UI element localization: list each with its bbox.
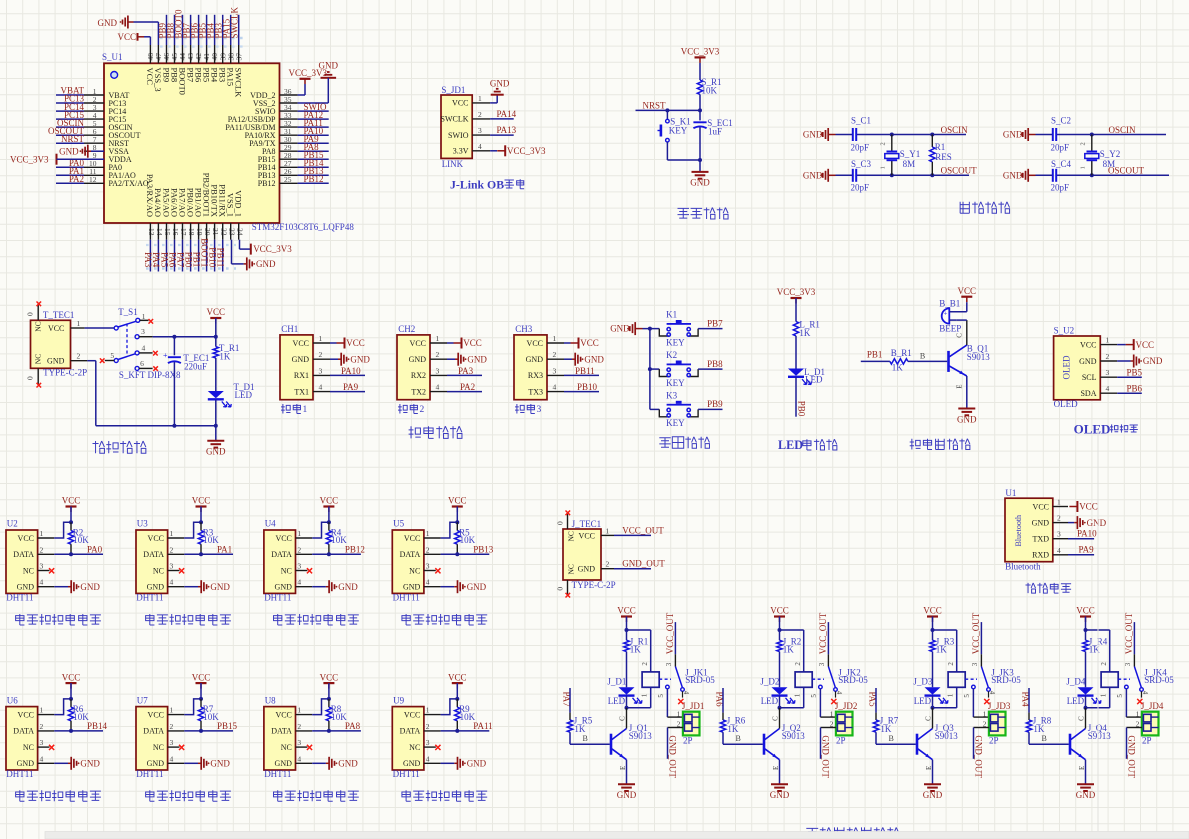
wire OLED SDA PB6 (1117, 383, 1142, 393)
svg-text:C: C (771, 716, 779, 721)
svg-text:GND: GND (1003, 130, 1023, 140)
svg-text:5: 5 (1116, 694, 1124, 698)
svg-text:VCC: VCC (923, 606, 942, 616)
svg-text:B: B (920, 351, 925, 360)
wire U5 DATA PB13 (441, 545, 494, 555)
svg-text:PB0: PB0 (796, 401, 806, 417)
pin U8 DATA stub (296, 730, 313, 732)
svg-text:SWCLK: SWCLK (441, 115, 469, 124)
connector U9 pin names (400, 706, 430, 769)
ground GND CH2 pin2 (447, 353, 487, 366)
svg-text:S_Y2: S_Y2 (1100, 149, 1121, 159)
svg-text:LED: LED (914, 696, 932, 706)
svg-text:K1: K1 (666, 310, 677, 320)
svg-text:S_Y1: S_Y1 (900, 149, 921, 159)
node MCU top net labels (157, 6, 239, 38)
svg-text:E: E (956, 385, 964, 389)
relay J_JK4 SRD-05 coil (1086, 662, 1175, 708)
svg-text:4: 4 (478, 142, 482, 151)
wire U3 vcc step (184, 520, 203, 538)
wire CH1 pin4 PA9 (330, 382, 365, 392)
svg-text:PA2/TX/AO: PA2/TX/AO (109, 179, 149, 188)
svg-text:OLED: OLED (1062, 355, 1072, 379)
svg-text:CH3: CH3 (515, 324, 533, 334)
svg-text:1: 1 (983, 710, 987, 719)
wire LED to node J_D3 (931, 696, 935, 710)
svg-text:14: 14 (155, 228, 164, 236)
svg-text:VCC_3V3: VCC_3V3 (507, 146, 546, 156)
svg-text:PB12: PB12 (258, 179, 276, 188)
pin J_TEC1 top 0 (556, 511, 571, 530)
wire collector J_Q2 (779, 708, 781, 729)
power VCC buzzer (958, 286, 977, 312)
svg-text:LINK: LINK (442, 159, 464, 169)
wire U7 vcc step (184, 697, 203, 715)
pin U2 DATA stub (38, 553, 55, 555)
svg-text:J_D2: J_D2 (760, 676, 779, 686)
svg-text:VCC: VCC (1033, 502, 1049, 511)
svg-text:1: 1 (426, 706, 430, 715)
svg-text:B: B (889, 734, 894, 743)
svg-text:DATA: DATA (271, 550, 292, 559)
node OSCIN label S_C1 (941, 125, 969, 135)
svg-text:SWCLK: SWCLK (230, 6, 240, 38)
power VCC CH2 pin1 (447, 338, 482, 349)
svg-text:1K: 1K (799, 328, 811, 338)
wire GND_OUT net (614, 559, 665, 569)
connector U1 pins (1032, 498, 1068, 560)
pin U7 VCC stub (168, 714, 185, 716)
svg-text:DHT11: DHT11 (136, 769, 163, 779)
connector J_JD4 2P (1136, 701, 1164, 746)
svg-text:1: 1 (426, 529, 430, 538)
resistor R6 10K (68, 699, 89, 733)
node PA4 label (1021, 692, 1031, 708)
ground buzzer GND (957, 409, 977, 425)
svg-text:NC: NC (34, 354, 43, 364)
connector J_JD1 2P (677, 701, 705, 746)
ground GND U7 (184, 757, 230, 770)
svg-text:GND: GND (957, 414, 977, 424)
wire VCC_OUT J_JK2 (818, 612, 828, 666)
connector CH1 pins (292, 334, 330, 396)
svg-text:GND: GND (147, 583, 165, 592)
svg-text:GND: GND (98, 18, 118, 28)
svg-text:1: 1 (40, 529, 44, 538)
svg-text:4: 4 (436, 383, 440, 392)
capacitor S_C2 20pF (1051, 115, 1072, 152)
svg-text:S9013: S9013 (1088, 731, 1112, 741)
svg-text:LED: LED (805, 374, 823, 384)
svg-text:VCC: VCC (579, 531, 595, 540)
svg-text:VCC: VCC (1080, 340, 1096, 349)
MCU left pin stubs (84, 95, 104, 183)
svg-text:DATA: DATA (400, 727, 421, 736)
power VCC relay J_R2 (770, 606, 789, 630)
svg-text:RXD: RXD (1032, 551, 1049, 560)
svg-text:4: 4 (142, 343, 146, 352)
wire emitter J_Q2 (779, 760, 781, 785)
svg-text:1: 1 (478, 94, 482, 103)
wire TEC1 pin1 to switch (85, 327, 115, 329)
svg-text:5: 5 (110, 351, 114, 360)
wire OSCOUT S_C4 (1036, 174, 1170, 176)
pin U9 NC no-connect (424, 745, 441, 750)
svg-text:20pF: 20pF (1051, 183, 1070, 193)
svg-text:SWCLK: SWCLK (234, 68, 244, 99)
svg-text:3: 3 (40, 562, 44, 571)
selection dots top (160, 38, 246, 47)
resistor R1 RES (930, 133, 952, 178)
node OSCOUT label S_C3 (941, 166, 978, 176)
svg-text:GND: GND (338, 759, 358, 769)
svg-text:1K: 1K (727, 724, 739, 734)
node MCU right net labels (304, 102, 327, 184)
svg-text:LED: LED (608, 696, 626, 706)
capacitor S_C3 20pF (851, 159, 872, 193)
svg-text:SDA: SDA (1080, 389, 1096, 398)
svg-text:DHT11: DHT11 (136, 593, 163, 603)
ground GND U2 (54, 580, 100, 593)
svg-text:U9: U9 (393, 695, 404, 705)
svg-text:4: 4 (297, 754, 301, 763)
node PB0 label (796, 401, 806, 417)
svg-text:DATA: DATA (143, 727, 164, 736)
wire LED top (795, 298, 797, 322)
svg-text:2: 2 (1079, 142, 1086, 145)
svg-text:GND: GND (210, 582, 230, 592)
svg-text:1K: 1K (630, 644, 642, 654)
svg-text:PA9: PA9 (343, 382, 359, 392)
power VCC CH3 pin1 (564, 338, 599, 349)
svg-text:VCC: VCC (404, 710, 420, 719)
svg-text:0: 0 (556, 587, 565, 591)
svg-text:C: C (1077, 716, 1085, 721)
power VCC_3V3 to pin36 VDD_2 (289, 68, 328, 95)
svg-text:NC: NC (34, 321, 43, 331)
pin J_TEC1 GND pin2 (578, 560, 614, 574)
wire MCU top nets (167, 15, 239, 45)
wire LED to PB0 (795, 377, 797, 417)
svg-text:PB11: PB11 (216, 248, 226, 268)
wire OSCOUT S_C3 (836, 174, 970, 176)
svg-text:4: 4 (170, 754, 174, 763)
capacitor S_EC1 1uF (693, 110, 732, 160)
svg-text:VCC: VCC (207, 307, 226, 317)
svg-text:VCC_OUT: VCC_OUT (818, 612, 828, 654)
switch T_S1 DIP (100, 307, 181, 380)
resistor J_R8 1K (1026, 715, 1052, 734)
wire VCC_OUT J_JK4 (1124, 612, 1134, 666)
svg-text:4: 4 (40, 754, 44, 763)
svg-text:SWIO: SWIO (448, 131, 469, 140)
power VCC CH1 pin1 (330, 338, 365, 349)
svg-text:2: 2 (947, 662, 955, 666)
svg-text:VCC_OUT: VCC_OUT (1124, 612, 1134, 654)
wire switch pin3 to rail (153, 335, 218, 339)
svg-text:3: 3 (553, 366, 557, 375)
wire CH3 pin3 PB11 (564, 366, 599, 376)
wire U8 DATA PA8 (312, 721, 361, 731)
connector S_U2 OLED body (1054, 326, 1101, 409)
wire key PB7 (698, 318, 723, 328)
svg-text:1: 1 (297, 529, 301, 538)
node MCU bottom net labels (143, 238, 225, 267)
connector U6 DHT11 body (6, 695, 38, 779)
svg-text:3: 3 (170, 738, 174, 747)
wire reset bottom (667, 158, 702, 172)
svg-text:VCC: VCC (770, 606, 789, 616)
svg-text:PB15: PB15 (217, 721, 238, 731)
wire U9 vcc step (441, 697, 460, 715)
svg-text:+: + (944, 310, 948, 318)
svg-text:2: 2 (641, 662, 649, 666)
svg-text:DATA: DATA (271, 727, 292, 736)
pin U9 GND stub (424, 762, 441, 764)
svg-text:RX2: RX2 (411, 371, 426, 380)
connector U8 pin names (271, 706, 301, 769)
svg-text:2: 2 (297, 545, 301, 554)
connector U4 DHT11 body (264, 519, 296, 603)
svg-text:U5: U5 (393, 519, 404, 529)
svg-text:S9013: S9013 (935, 731, 959, 741)
svg-text:4: 4 (319, 383, 323, 392)
svg-text:1: 1 (1079, 166, 1086, 169)
svg-text:SRD-05: SRD-05 (685, 675, 715, 685)
svg-text:VCC_OUT: VCC_OUT (622, 525, 664, 535)
wire collector J_Q3 (932, 708, 934, 729)
svg-text:VCC: VCC (192, 496, 211, 506)
diode J_D3 LED (913, 676, 948, 706)
pin U6 VCC stub (38, 714, 55, 716)
svg-text:RX1: RX1 (294, 371, 309, 380)
svg-text:1uF: 1uF (708, 126, 722, 136)
pin U3 DATA stub (168, 553, 185, 555)
svg-text:OSCIN: OSCIN (1109, 125, 1137, 135)
scrollbar (45, 832, 1189, 839)
pin U6 GND stub (38, 762, 55, 764)
svg-text:1: 1 (170, 529, 174, 538)
power VCC relay J_R4 (1076, 606, 1095, 630)
svg-text:20pF: 20pF (1051, 143, 1070, 153)
svg-text:GND: GND (350, 354, 370, 364)
svg-text:VCC: VCC (48, 324, 64, 333)
wire collector J_Q1 (626, 708, 628, 729)
svg-text:2: 2 (478, 110, 482, 119)
resistor R7 10K (198, 699, 219, 733)
svg-text:GND: GND (147, 759, 165, 768)
svg-text:DHT11: DHT11 (264, 593, 291, 603)
svg-text:1K: 1K (936, 644, 948, 654)
connector CH1 body (280, 324, 313, 400)
wire L_R1 to LED (795, 336, 797, 369)
resistor J_R4 1K (1083, 630, 1108, 654)
switch S_K1 KEY (658, 110, 691, 160)
wire J_R1 to LED (626, 652, 628, 688)
svg-text:2: 2 (879, 142, 886, 145)
svg-text:1K: 1K (219, 352, 231, 362)
svg-text:GND: GND (803, 170, 823, 180)
wire keys left rail (643, 327, 660, 410)
wire VCC_OUT net (614, 525, 664, 535)
pin U4 DATA stub (296, 553, 313, 555)
svg-text:4: 4 (170, 578, 174, 587)
svg-text:PB9: PB9 (707, 399, 723, 409)
svg-text:TX1: TX1 (294, 387, 309, 396)
MCU bottom pin stubs (150, 223, 238, 240)
wire relay pin5 down (667, 689, 683, 717)
svg-text:DHT11: DHT11 (393, 769, 420, 779)
svg-text:OLED: OLED (1054, 399, 1078, 409)
svg-text:VCC_3V3: VCC_3V3 (681, 47, 720, 57)
power VCC U8 (320, 672, 339, 699)
node OSCOUT label S_C4 (1108, 166, 1145, 176)
svg-text:1: 1 (297, 706, 301, 715)
svg-text:GND_OUT: GND_OUT (667, 735, 677, 778)
wire U3 DATA PA1 (184, 545, 233, 555)
svg-text:1: 1 (606, 526, 610, 535)
wire JD1 pin3 PA13 (490, 125, 517, 135)
ground GND BT pin2 (1068, 516, 1107, 529)
wire CH2 pin3 PA3 (447, 366, 482, 376)
power VCC U7 (192, 672, 211, 699)
svg-text:VCC: VCC (275, 710, 291, 719)
wire OLED SCL PB5 (1117, 367, 1142, 377)
label serial title (409, 426, 462, 438)
connector T_TEC1 TYPE-C body (31, 310, 88, 377)
power VCC U4 (320, 496, 339, 523)
svg-text:R1: R1 (935, 142, 946, 152)
label U5 title (402, 614, 487, 625)
ground GND U6 (54, 757, 100, 770)
connector U7 pin names (143, 706, 173, 769)
pin U2 VCC stub (38, 537, 55, 539)
wire U7 DATA PB15 (184, 721, 237, 731)
power VCC U2 (62, 496, 81, 523)
svg-text:15: 15 (163, 228, 172, 236)
svg-text:S_C4: S_C4 (1051, 159, 1072, 169)
ground GND on JD1 pin1 (490, 78, 510, 103)
svg-text:3: 3 (436, 366, 440, 375)
wire relay top J_R4 (1084, 628, 1110, 672)
svg-text:GND: GND (210, 759, 230, 769)
connector U2 pin names (13, 529, 43, 592)
label U2 title (16, 614, 101, 625)
transistor B_Q1 S9013 (949, 333, 991, 389)
wire OSCIN S_C2 (1036, 134, 1167, 136)
svg-text:16: 16 (171, 228, 180, 236)
label relay title (806, 827, 899, 839)
svg-text:TYPE-C-2P: TYPE-C-2P (572, 580, 616, 590)
wire PA6 input (722, 688, 724, 720)
power VCC U5 (448, 496, 467, 523)
svg-text:GND: GND (467, 354, 487, 364)
wire J_R2 to LED (779, 652, 781, 688)
switch contacts J_JK4 (1116, 667, 1149, 705)
svg-text:13: 13 (147, 228, 156, 236)
ground GND U4 (312, 580, 358, 593)
svg-text:VCC: VCC (617, 606, 636, 616)
svg-text:VCC: VCC (410, 339, 426, 348)
wire GND_OUT J_JD1 (667, 728, 683, 779)
pin U8 GND stub (296, 762, 313, 764)
svg-text:2: 2 (794, 662, 802, 666)
svg-text:J_D1: J_D1 (607, 676, 626, 686)
svg-text:1: 1 (879, 166, 886, 169)
svg-text:2: 2 (606, 560, 610, 569)
svg-text:J-Link OB: J-Link OB (450, 177, 504, 191)
label OLED title (1074, 421, 1138, 436)
diode T_D1 LED (208, 382, 255, 407)
svg-text:17: 17 (179, 228, 188, 236)
wire relay top J_R3 (931, 628, 957, 672)
svg-text:NC: NC (23, 566, 34, 575)
label Bluetooth title (1026, 583, 1072, 593)
svg-text:DATA: DATA (143, 550, 164, 559)
transistor J_Q2 S9013 (764, 716, 805, 770)
svg-text:NRST: NRST (61, 134, 85, 144)
svg-text:1K: 1K (892, 362, 904, 372)
diode J_D1 LED (607, 676, 642, 706)
svg-text:2: 2 (436, 350, 440, 359)
power VCC_3V3 LED circuit (777, 287, 816, 303)
svg-text:1: 1 (40, 706, 44, 715)
svg-text:GND: GND (403, 583, 421, 592)
svg-text:1K: 1K (783, 644, 795, 654)
svg-text:VCC_3V3: VCC_3V3 (777, 287, 816, 297)
svg-text:J_JD3: J_JD3 (988, 701, 1011, 711)
wire reset rail top (699, 63, 701, 80)
wire relay top J_R2 (778, 628, 804, 672)
svg-text:PA9: PA9 (1079, 545, 1095, 555)
resistor R8 10K (326, 699, 347, 733)
wire LED to gnd node (214, 400, 218, 428)
svg-text:GND: GND (319, 61, 339, 71)
ground GND U3 (184, 580, 230, 593)
svg-text:4: 4 (682, 691, 690, 695)
svg-text:GND: GND (1087, 518, 1107, 528)
ground relay GND J_Q1 (617, 784, 637, 800)
svg-text:U8: U8 (265, 695, 276, 705)
svg-text:VCC: VCC (448, 496, 467, 506)
crystal S_Y2 8M (1079, 133, 1120, 178)
resistor J_R3 1K (930, 630, 955, 654)
label reset title (678, 208, 729, 220)
pin U4 VCC stub (296, 537, 313, 539)
svg-text:4: 4 (1057, 546, 1061, 555)
svg-text:2P: 2P (683, 736, 693, 746)
wire T_R1 to LED (215, 358, 217, 391)
svg-text:PB6: PB6 (1127, 383, 1143, 393)
wire reset node (636, 94, 703, 112)
ground GND S_C1 top (803, 128, 836, 141)
svg-text:GND: GND (467, 759, 487, 769)
pin U7 NC no-connect (168, 745, 185, 750)
svg-text:PB11: PB11 (575, 366, 595, 376)
pin U9 VCC stub (424, 714, 441, 716)
svg-text:PA11: PA11 (473, 721, 492, 731)
svg-text:STM32F103C8T6_LQFP48: STM32F103C8T6_LQFP48 (252, 222, 355, 232)
pin TEC1 GND pin2 (47, 352, 87, 366)
svg-text:NC: NC (567, 531, 576, 541)
svg-text:3.3V: 3.3V (453, 147, 469, 156)
svg-text:VCC: VCC (448, 672, 467, 682)
wire BT TXD PA10 (1068, 529, 1097, 539)
svg-text:2: 2 (319, 350, 323, 359)
capacitor T_EC1 220uF (163, 337, 209, 426)
resistor S_R1 10K (697, 77, 721, 95)
connector S_U2 pins (1079, 336, 1117, 398)
